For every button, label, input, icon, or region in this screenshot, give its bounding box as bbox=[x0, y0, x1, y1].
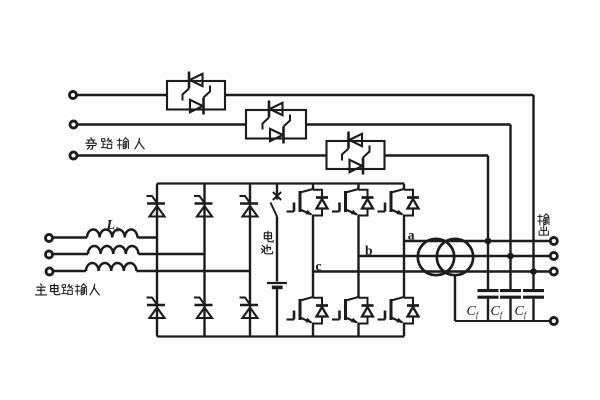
wire inverter leg 3 emitter to bottom rail bbox=[403, 324, 405, 337]
wire bypass phase 3 from terminal to SCR box 3 bbox=[77, 154, 326, 156]
wire rectifier leg 1 bbox=[156, 184, 158, 337]
static switch box S3 (anti-parallel SCR pair) bbox=[327, 132, 385, 175]
label 主电路输入 (main circuit input) bbox=[36, 284, 100, 295]
battery GB plates bbox=[267, 283, 287, 287]
thyristor VT1 (rectifier top arm, leg 1) bbox=[147, 196, 166, 217]
wire capacitor Cf2 to neutral rail bbox=[509, 299, 511, 321]
IGBT V3 with anti-parallel diode (inverter top arm, leg 3) bbox=[378, 189, 420, 216]
IGBT V5 with anti-parallel diode (inverter bottom arm, leg 2) bbox=[332, 297, 374, 324]
wire inverter leg 3 midpoint bbox=[403, 216, 405, 298]
wire inverter leg 2 emitter to bottom rail bbox=[357, 324, 359, 337]
static switch box S1 (anti-parallel SCR pair) bbox=[167, 72, 225, 115]
bypass input terminal 2 bbox=[70, 121, 77, 128]
output transformer T (two overlapping circles) bbox=[418, 239, 473, 275]
wire bypass phase 1 from box 1 to node on output phase c bbox=[225, 95, 534, 272]
output terminal neutral bbox=[550, 318, 557, 325]
output terminal phase c bbox=[550, 268, 557, 275]
label 输出 (output) bbox=[538, 214, 549, 235]
wire bypass phase 3 from box 3 to node on output phase a bbox=[385, 156, 489, 242]
wire capacitor Cf3 to neutral rail bbox=[532, 299, 534, 321]
label 旁路输入 (bypass input) bbox=[86, 138, 144, 149]
thyristor VT5 (rectifier bottom arm, leg 2) bbox=[194, 298, 213, 319]
node phase b / bypass 2 junction bbox=[507, 253, 514, 260]
static switch box S2 (anti-parallel SCR pair) bbox=[246, 101, 306, 144]
label Cf 2 bbox=[491, 304, 504, 320]
bypass input terminal 1 bbox=[70, 92, 77, 99]
wire capacitor Cf1 to neutral rail bbox=[487, 299, 489, 321]
output terminal phase a bbox=[550, 238, 557, 245]
wire transformer neutral to neutral rail bbox=[455, 275, 550, 321]
wire phase node down to capacitor Cf1 bbox=[487, 241, 489, 289]
IGBT V1 with anti-parallel diode (inverter top arm, leg 1) bbox=[287, 189, 329, 216]
wire phase a from inverter leg 3 to output bbox=[404, 240, 550, 242]
wire switch to battery bbox=[276, 217, 278, 282]
inductor La phase 1 bbox=[52, 230, 157, 238]
wire battery branch from top rail bbox=[276, 184, 278, 200]
wire inverter leg 2 collector from top rail bbox=[357, 184, 359, 190]
battery disconnect switch (breaker) QF bbox=[271, 192, 282, 217]
wire bypass phase 2 from terminal to SCR box 2 bbox=[77, 123, 246, 125]
IGBT V2 with anti-parallel diode (inverter top arm, leg 2) bbox=[332, 189, 374, 216]
inductor La phase 2 bbox=[52, 246, 204, 254]
wire phase node down to capacitor Cf3 bbox=[532, 272, 534, 290]
capacitor Cf2 bbox=[500, 291, 521, 298]
label a (phase a node) bbox=[408, 228, 415, 243]
thyristor VT2 (rectifier top arm, leg 2) bbox=[194, 196, 213, 217]
thyristor VT4 (rectifier bottom arm, leg 1) bbox=[147, 298, 166, 319]
IGBT V6 with anti-parallel diode (inverter bottom arm, leg 3) bbox=[378, 297, 420, 324]
label c (phase c node) bbox=[316, 259, 322, 274]
node phase c / bypass 1 junction bbox=[530, 268, 537, 275]
thyristor VT3 (rectifier top arm, leg 3) bbox=[240, 196, 259, 217]
wire phase c from inverter leg 1 to output bbox=[313, 270, 550, 272]
wire battery to bottom rail bbox=[276, 289, 278, 337]
IGBT V4 with anti-parallel diode (inverter bottom arm, leg 1) bbox=[287, 297, 329, 324]
output terminal phase b bbox=[550, 253, 557, 260]
wire bypass phase 1 from terminal to SCR box 1 bbox=[77, 94, 167, 96]
wire inverter leg 1 midpoint bbox=[312, 216, 314, 298]
wire negative DC rail (bottom) bbox=[157, 335, 404, 337]
main circuit input terminal 2 bbox=[46, 251, 53, 258]
capacitor Cf1 bbox=[478, 291, 499, 298]
label Cf 1 bbox=[467, 304, 480, 320]
label 电池 (battery) bbox=[262, 231, 274, 253]
bypass input terminal 3 bbox=[70, 152, 77, 159]
wire phase node down to capacitor Cf2 bbox=[509, 256, 511, 289]
thyristor VT6 (rectifier bottom arm, leg 3) bbox=[240, 298, 259, 319]
label b (phase b node) bbox=[365, 243, 373, 258]
label Cf 3 bbox=[515, 304, 528, 320]
label L (input inductor value) bbox=[106, 218, 120, 234]
wire phase b from inverter leg 2 to output bbox=[359, 255, 550, 257]
wire inverter leg 1 collector from top rail bbox=[312, 184, 314, 190]
wire inverter leg 1 emitter to bottom rail bbox=[312, 324, 314, 337]
main circuit input terminal 1 bbox=[46, 235, 53, 242]
wire inverter leg 2 midpoint bbox=[357, 216, 359, 298]
inductor La phase 3 bbox=[53, 263, 250, 271]
wire rectifier leg 2 bbox=[203, 184, 205, 337]
main circuit input terminal 3 bbox=[46, 268, 53, 275]
capacitor Cf3 bbox=[523, 291, 544, 298]
wire bypass phase 2 from box 2 to node on output phase b bbox=[306, 125, 511, 257]
node phase a / bypass 3 junction bbox=[485, 238, 492, 245]
wire inverter leg 3 collector from top rail bbox=[403, 184, 405, 190]
wire rectifier leg 3 bbox=[249, 184, 251, 337]
wire positive DC rail (top) bbox=[157, 182, 404, 184]
